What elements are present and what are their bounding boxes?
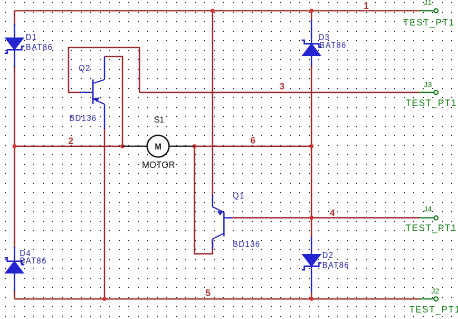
svg-text:5: 5 bbox=[205, 288, 210, 298]
svg-text:2: 2 bbox=[68, 136, 73, 146]
svg-text:TEST_PT1: TEST_PT1 bbox=[409, 304, 458, 314]
svg-text:J3: J3 bbox=[424, 80, 432, 89]
svg-text:J1: J1 bbox=[424, 0, 432, 7]
svg-text:Q1: Q1 bbox=[233, 192, 245, 201]
svg-text:4: 4 bbox=[330, 208, 336, 218]
svg-text:J2: J2 bbox=[431, 287, 439, 296]
svg-text:3: 3 bbox=[279, 82, 284, 92]
svg-text:TEST_PT1: TEST_PT1 bbox=[406, 98, 458, 108]
svg-text:J4: J4 bbox=[424, 204, 432, 213]
svg-text:BD136: BD136 bbox=[233, 240, 261, 249]
svg-text:TEST_PT1: TEST_PT1 bbox=[406, 223, 458, 233]
svg-text:BAT86: BAT86 bbox=[26, 43, 53, 52]
svg-text:BAT86: BAT86 bbox=[320, 41, 347, 50]
svg-text:MOTOR: MOTOR bbox=[142, 160, 175, 170]
svg-text:BAT86: BAT86 bbox=[322, 261, 349, 270]
svg-text:S1: S1 bbox=[154, 115, 165, 125]
svg-text:6: 6 bbox=[250, 136, 255, 146]
svg-text:Q2: Q2 bbox=[79, 64, 91, 73]
svg-text:TEST_PT1: TEST_PT1 bbox=[403, 17, 455, 27]
svg-text:D2: D2 bbox=[322, 251, 333, 260]
svg-text:BD136: BD136 bbox=[69, 114, 97, 123]
svg-text:M: M bbox=[155, 142, 162, 151]
svg-text:1: 1 bbox=[364, 1, 369, 11]
svg-text:D1: D1 bbox=[26, 33, 37, 42]
svg-text:BAT86: BAT86 bbox=[20, 257, 47, 266]
